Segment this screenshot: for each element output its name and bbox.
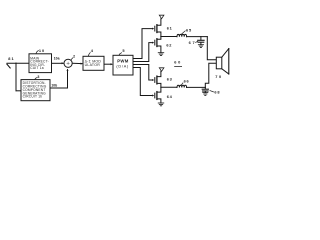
svg-text:4: 4 xyxy=(91,48,94,53)
svg-text:81: 81 xyxy=(8,56,14,61)
svg-text:CIRCUIT 1b: CIRCUIT 1b xyxy=(23,95,43,99)
svg-text:10: 10 xyxy=(39,48,45,53)
svg-text:62: 62 xyxy=(166,42,172,47)
svg-text:ULATOR: ULATOR xyxy=(85,63,101,67)
svg-text:10b: 10b xyxy=(51,84,57,88)
svg-text:10a: 10a xyxy=(54,57,60,61)
svg-text:67: 67 xyxy=(189,40,197,45)
svg-text:70: 70 xyxy=(215,74,223,79)
svg-text:PWM: PWM xyxy=(117,59,128,64)
svg-text:3: 3 xyxy=(37,74,40,79)
svg-text:63: 63 xyxy=(167,76,173,81)
svg-text:66: 66 xyxy=(184,78,190,83)
svg-text:60: 60 xyxy=(174,59,182,64)
svg-text:65: 65 xyxy=(186,27,192,32)
svg-text:64: 64 xyxy=(167,94,173,99)
svg-text:2: 2 xyxy=(73,53,76,58)
svg-text:(D/A): (D/A) xyxy=(116,64,129,68)
svg-text:5: 5 xyxy=(122,48,125,53)
svg-text:68: 68 xyxy=(214,90,220,95)
svg-text:CUIT 1a: CUIT 1a xyxy=(30,66,43,70)
svg-text:61: 61 xyxy=(167,26,173,31)
